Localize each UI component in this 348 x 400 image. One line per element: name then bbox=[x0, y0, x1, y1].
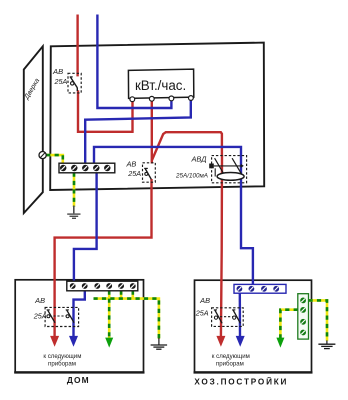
wire L meter output terminal 2 down to breaker AB2 bbox=[151, 99, 153, 164]
meter terminal 3 bbox=[169, 96, 174, 101]
wire PE door circle to bus terminal 1 (yellow-green) bbox=[46, 155, 63, 163]
svg-text:25А/100мА: 25А/100мА bbox=[175, 172, 208, 179]
meter terminal 4 bbox=[189, 96, 194, 101]
ground symbol (main box PE) bbox=[67, 206, 80, 219]
wire N from bus terminal 4 down to house bar bbox=[74, 173, 97, 284]
outbuilding terminal bar (N, blue screws) bbox=[234, 284, 286, 293]
ground symbol (house) bbox=[151, 338, 168, 349]
breaker AB3 25A (house, 2-pole) bbox=[45, 307, 79, 326]
svg-text:АВ: АВ bbox=[52, 67, 63, 76]
house texts bbox=[43, 353, 89, 385]
wire N house bar terminal 2 down to breaker AB3 bbox=[74, 291, 85, 339]
svg-text:25А: 25А bbox=[195, 308, 209, 317]
breaker AB4 25A (outbuilding, 2-pole) bbox=[212, 308, 244, 327]
breaker AB1 25A (main input) bbox=[68, 73, 81, 93]
svg-text:кВт./час.: кВт./час. bbox=[135, 78, 186, 93]
svg-text:приборам: приборам bbox=[216, 361, 244, 368]
PE bar (outbuilding, vertical green) bbox=[298, 294, 309, 339]
arrow red (outbuilding) bbox=[216, 336, 225, 347]
RCD label АВД bbox=[175, 155, 208, 180]
wire N input (blue, from top) to meter terminal 3 bbox=[97, 15, 171, 109]
wire L from breaker AB1 to meter terminal 1 bbox=[78, 90, 134, 132]
terminal circle on door edge bbox=[39, 152, 46, 159]
wire L from breaker AB2 down-left-down to house breaker AB3 bbox=[55, 179, 152, 338]
svg-text:АВД: АВД bbox=[191, 155, 207, 164]
svg-text:25А: 25А bbox=[54, 77, 68, 86]
svg-text:АВ: АВ bbox=[34, 296, 45, 305]
wire N meter terminal 4 down to N bus terminal 3 bbox=[85, 98, 191, 164]
svg-text:ДОМ: ДОМ bbox=[67, 375, 90, 385]
RCD (АВД 25А/100мА) bbox=[209, 156, 246, 183]
arrow blue (house) bbox=[69, 336, 78, 347]
svg-text:25А: 25А bbox=[127, 169, 141, 178]
main distribution box bbox=[50, 43, 264, 190]
electricity meter кВт./час. bbox=[128, 69, 193, 98]
house box ДОМ bbox=[14, 280, 144, 373]
breaker AB2 label bbox=[126, 159, 142, 178]
breaker AB3 label bbox=[33, 296, 47, 321]
wire L from RCD down to outbuilding breaker AB4 bbox=[221, 155, 222, 338]
wire L branch to RCD (diagonal + horizontal) bbox=[152, 132, 222, 160]
arrow red (house, to next consumers) bbox=[50, 336, 59, 347]
wire N from bus terminal 4 up and right to RCD bbox=[94, 147, 241, 164]
breaker AB2 25A (after meter) bbox=[143, 163, 156, 182]
PE/N bus bar (main box) bbox=[59, 163, 115, 173]
svg-text:к следующим: к следующим bbox=[212, 353, 250, 360]
svg-text:ХОЗ.ПОСТРОЙКИ: ХОЗ.ПОСТРОЙКИ bbox=[194, 375, 288, 386]
meter terminal 2 bbox=[149, 96, 154, 101]
arrow blue (outbuilding) bbox=[236, 336, 245, 347]
arrow green (outbuilding PE) bbox=[276, 338, 284, 348]
svg-text:АВ: АВ bbox=[199, 296, 210, 305]
wire PE bus terminal 2 down to earth bbox=[73, 173, 76, 207]
wire PE outbuilding: bar to earth + arrow (yellow-green) bbox=[280, 300, 327, 340]
outbuilding box ХОЗ.ПОСТРОЙКИ bbox=[194, 280, 313, 372]
svg-text:АВ: АВ bbox=[126, 159, 137, 168]
meter terminal 1 bbox=[130, 97, 135, 102]
wire N from RCD down to outbuilding bar terminal 2 bbox=[241, 155, 253, 285]
wire riser to meter terminal 1 bbox=[131, 99, 133, 133]
svg-text:к следующим: к следующим bbox=[43, 353, 81, 360]
wire PE house: bar risers + run to earth (yellow-green) bbox=[94, 291, 159, 340]
house terminal bar bbox=[67, 281, 138, 291]
ground symbol (outbuilding) bbox=[318, 340, 335, 348]
wire L phase input (red, from top) bbox=[76, 15, 78, 77]
outbuilding texts bbox=[194, 353, 288, 387]
arrow green (house PE to next consumers) bbox=[105, 338, 113, 348]
breaker AB4 label bbox=[195, 296, 210, 317]
svg-text:приборам: приборам bbox=[48, 361, 76, 368]
breaker AB1 label bbox=[52, 67, 67, 86]
door panel (Дверка) bbox=[23, 46, 43, 213]
wire N outbuilding bar terminal 1 down to breaker AB4 bbox=[239, 293, 242, 339]
